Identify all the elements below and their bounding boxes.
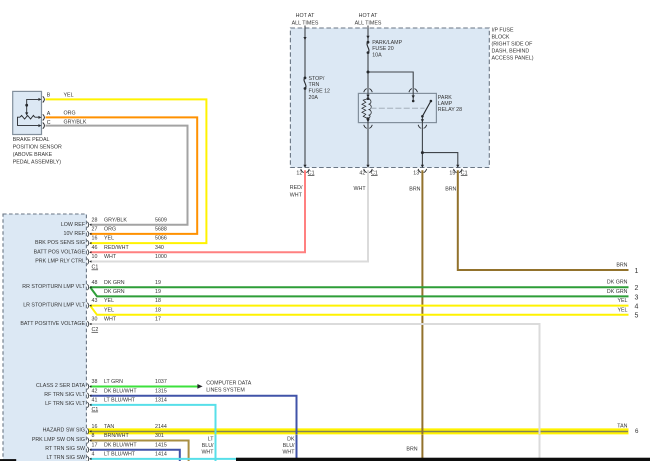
svg-text:16: 16	[92, 424, 98, 430]
svg-text:BRN: BRN	[406, 447, 417, 453]
svg-text:30: 30	[92, 317, 98, 323]
svg-text:GRY/BLK: GRY/BLK	[64, 119, 87, 125]
svg-text:PARK/LAMP: PARK/LAMP	[372, 40, 402, 46]
svg-text:WHT: WHT	[104, 317, 117, 323]
svg-text:27: 27	[92, 227, 98, 233]
svg-text:1037: 1037	[155, 379, 167, 385]
svg-text:YEL: YEL	[104, 307, 114, 313]
svg-text:POSITION SENSOR: POSITION SENSOR	[13, 145, 62, 151]
svg-text:TAN: TAN	[617, 423, 627, 429]
svg-text:28: 28	[92, 217, 98, 223]
svg-text:13: 13	[413, 171, 419, 177]
svg-text:RR STOP/TURN LMP VLT: RR STOP/TURN LMP VLT	[22, 284, 85, 290]
svg-text:2: 2	[635, 285, 639, 292]
svg-text:YEL: YEL	[104, 298, 114, 304]
svg-text:HOT AT: HOT AT	[296, 13, 315, 19]
svg-text:RED/WHT: RED/WHT	[104, 245, 129, 251]
svg-text:TAN: TAN	[104, 424, 114, 430]
svg-text:1414: 1414	[155, 452, 167, 458]
svg-text:RT TRN SIG SW: RT TRN SIG SW	[45, 446, 85, 452]
svg-text:YEL: YEL	[104, 236, 114, 242]
svg-text:GRY/BLK: GRY/BLK	[104, 217, 127, 223]
svg-text:1314: 1314	[155, 398, 167, 404]
svg-text:LINES SYSTEM: LINES SYSTEM	[206, 388, 245, 394]
svg-text:PARK: PARK	[438, 95, 452, 101]
svg-text:CLASS 2 SER DATA: CLASS 2 SER DATA	[36, 383, 85, 389]
svg-text:ORG: ORG	[104, 227, 116, 233]
svg-text:LT BLU/WHT: LT BLU/WHT	[104, 452, 136, 458]
svg-text:12: 12	[296, 171, 302, 177]
svg-text:BATT POS VOLTAGE: BATT POS VOLTAGE	[34, 249, 86, 255]
svg-text:15: 15	[449, 171, 455, 177]
svg-text:18: 18	[155, 298, 161, 304]
svg-text:HAZARD SW SIG: HAZARD SW SIG	[43, 428, 85, 434]
svg-text:46: 46	[92, 245, 98, 251]
svg-text:38: 38	[92, 379, 98, 385]
svg-text:42: 42	[359, 171, 365, 177]
svg-text:LT TRN SIG SW: LT TRN SIG SW	[46, 455, 85, 461]
svg-text:301: 301	[155, 433, 164, 439]
svg-text:BRN: BRN	[445, 186, 456, 192]
svg-text:WHT: WHT	[201, 449, 214, 455]
svg-text:DK GRN: DK GRN	[104, 280, 125, 286]
svg-text:BRN: BRN	[409, 186, 420, 192]
svg-text:LR STOP/TURN LMP VLT: LR STOP/TURN LMP VLT	[23, 303, 86, 309]
svg-text:17: 17	[155, 317, 161, 323]
svg-text:C: C	[47, 120, 51, 126]
svg-text:10: 10	[92, 254, 98, 260]
svg-text:4: 4	[92, 452, 95, 458]
svg-text:2144: 2144	[155, 424, 167, 430]
svg-text:TRN: TRN	[309, 82, 320, 88]
svg-text:ORG: ORG	[64, 111, 76, 117]
svg-text:DK GRN: DK GRN	[607, 289, 628, 295]
svg-text:A: A	[47, 111, 51, 117]
svg-text:DK BLU/WHT: DK BLU/WHT	[104, 442, 137, 448]
svg-text:5: 5	[635, 313, 639, 320]
svg-text:BLU/: BLU/	[283, 443, 295, 449]
svg-text:DK BLU/WHT: DK BLU/WHT	[104, 388, 137, 394]
svg-text:3: 3	[635, 294, 639, 301]
svg-text:LT: LT	[208, 436, 215, 442]
svg-text:WHT: WHT	[282, 449, 295, 455]
svg-text:WHT: WHT	[290, 192, 303, 198]
svg-text:I/P FUSE: I/P FUSE	[492, 28, 514, 34]
svg-text:19: 19	[155, 280, 161, 286]
svg-text:LAMP: LAMP	[438, 101, 453, 107]
svg-text:BRK POS SENS SIG: BRK POS SENS SIG	[35, 240, 85, 246]
svg-text:BRN/WHT: BRN/WHT	[104, 433, 129, 439]
svg-text:48: 48	[92, 280, 98, 286]
svg-text:17: 17	[92, 442, 98, 448]
svg-text:B: B	[47, 93, 51, 99]
svg-text:ALL TIMES: ALL TIMES	[355, 20, 382, 26]
svg-text:YEL: YEL	[617, 298, 627, 304]
svg-text:1: 1	[635, 268, 639, 275]
svg-text:8: 8	[92, 433, 95, 439]
svg-text:5066: 5066	[155, 236, 167, 242]
svg-text:DK GRN: DK GRN	[607, 280, 628, 286]
svg-text:HOT AT: HOT AT	[359, 13, 378, 19]
svg-text:ALL TIMES: ALL TIMES	[292, 20, 319, 26]
svg-text:WHT: WHT	[104, 254, 117, 260]
svg-text:BLU/: BLU/	[202, 443, 214, 449]
svg-text:10A: 10A	[372, 52, 382, 58]
svg-text:RED/: RED/	[290, 185, 303, 191]
svg-text:FUSE 20: FUSE 20	[372, 46, 394, 52]
svg-text:18: 18	[155, 307, 161, 313]
svg-text:PRK LMP SW ON SIG: PRK LMP SW ON SIG	[32, 437, 85, 443]
svg-text:BATT POSITIVE VOLTAGE: BATT POSITIVE VOLTAGE	[20, 321, 85, 327]
svg-text:RF TRN SIG VLT: RF TRN SIG VLT	[44, 392, 85, 398]
svg-text:COMPUTER DATA: COMPUTER DATA	[206, 381, 252, 387]
svg-text:FUSE 12: FUSE 12	[309, 89, 331, 95]
svg-text:PRK LMP RLY CTRL: PRK LMP RLY CTRL	[35, 259, 85, 265]
svg-text:6: 6	[635, 428, 639, 435]
svg-text:STOP/: STOP/	[309, 76, 325, 82]
svg-text:YEL: YEL	[64, 93, 74, 99]
svg-text:RELAY 28: RELAY 28	[438, 107, 462, 113]
svg-text:PEDAL ASSEMBLY): PEDAL ASSEMBLY)	[13, 160, 62, 166]
svg-text:DK: DK	[287, 436, 295, 442]
svg-text:16: 16	[92, 236, 98, 242]
svg-text:5688: 5688	[155, 227, 167, 233]
svg-text:1315: 1315	[155, 388, 167, 394]
svg-text:(ABOVE BRAKE: (ABOVE BRAKE	[13, 152, 53, 158]
svg-text:43: 43	[92, 298, 98, 304]
svg-text:LF TRN SIG VLT: LF TRN SIG VLT	[45, 401, 86, 407]
svg-text:4: 4	[635, 304, 639, 311]
svg-text:41: 41	[92, 398, 98, 404]
svg-text:YEL: YEL	[617, 307, 627, 313]
svg-text:BRN: BRN	[616, 263, 627, 269]
svg-text:DK GRN: DK GRN	[104, 289, 125, 295]
svg-text:WHT: WHT	[354, 186, 367, 192]
svg-text:BRAKE PEDAL: BRAKE PEDAL	[13, 137, 50, 143]
svg-text:10V REF: 10V REF	[64, 231, 86, 237]
svg-text:LT GRN: LT GRN	[104, 379, 123, 385]
svg-text:DASH, BEHIND: DASH, BEHIND	[492, 49, 530, 55]
svg-text:19: 19	[155, 289, 161, 295]
svg-text:1415: 1415	[155, 442, 167, 448]
svg-text:340: 340	[155, 245, 164, 251]
svg-text:42: 42	[92, 388, 98, 394]
svg-text:20A: 20A	[309, 95, 319, 101]
svg-text:5609: 5609	[155, 217, 167, 223]
svg-text:LT BLU/WHT: LT BLU/WHT	[104, 398, 136, 404]
svg-text:LOW REF: LOW REF	[61, 222, 86, 228]
svg-text:1000: 1000	[155, 254, 167, 260]
svg-text:BLOCK: BLOCK	[492, 35, 510, 41]
svg-text:ACCESS PANEL): ACCESS PANEL)	[492, 56, 534, 62]
svg-text:(RIGHT SIDE OF: (RIGHT SIDE OF	[492, 42, 534, 48]
